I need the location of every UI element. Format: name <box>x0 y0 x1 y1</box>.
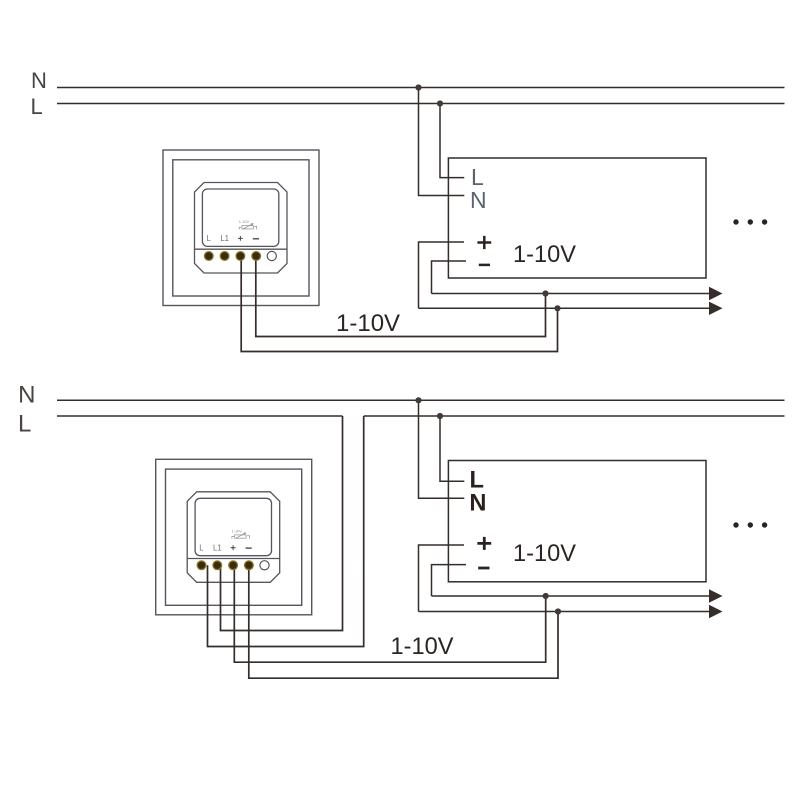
svg-text:N: N <box>470 187 487 213</box>
wire N mains (top) <box>57 87 785 89</box>
dimmer module device U1 (top) <box>195 183 288 274</box>
svg-text:1-10V: 1-10V <box>513 242 576 268</box>
junction dim bus 2 (bottom) <box>555 608 561 614</box>
dimmer module terminals U1 (top) <box>204 251 277 261</box>
wire module - to ballast line (top) <box>256 256 546 337</box>
wire L drop to driver (top) <box>440 104 464 178</box>
wire module L1 feed (bottom) <box>221 416 343 631</box>
svg-text:N: N <box>31 68 47 93</box>
junction dim bus 1 (top) <box>542 290 548 296</box>
pin - symbol (bottom driver) <box>478 567 489 570</box>
svg-text:1-10V: 1-10V <box>336 310 400 337</box>
pin - symbol (top driver) <box>479 264 490 267</box>
svg-text:L: L <box>18 411 31 438</box>
ellipsis more drivers (top) <box>733 219 738 224</box>
wire module L return (bottom) <box>208 416 364 647</box>
junction dim bus 1 (bottom) <box>543 593 549 599</box>
wire - out of driver (bottom) <box>432 565 467 596</box>
wire N mains (bottom) <box>57 399 785 401</box>
wire L drop to driver (bottom) <box>440 416 464 481</box>
pin + symbol (top driver) <box>477 236 491 249</box>
dimmer module U1 (top) <box>163 150 319 306</box>
wire + out of driver (top) <box>419 242 465 308</box>
dimmer module U2 (bottom) <box>156 459 312 615</box>
junction N (top) <box>415 84 421 90</box>
svg-text:L: L <box>470 467 484 493</box>
dimmer module device U2 (bottom) <box>187 492 280 583</box>
svg-text:1-10V: 1-10V <box>391 634 454 660</box>
wire module + to ballast line (top) <box>241 256 557 352</box>
junction L (top) <box>437 100 443 106</box>
svg-text:N: N <box>469 491 486 517</box>
wire L mains switched segment (bottom) <box>364 415 785 417</box>
svg-text:1-10V: 1-10V <box>513 541 576 567</box>
junction dim bus 2 (top) <box>554 305 560 311</box>
driver box (top) <box>448 158 706 278</box>
wire module - to dim bus (bottom) <box>249 565 558 678</box>
wire N drop to driver (top) <box>419 88 465 196</box>
wire dim bus 1 with arrow (bottom) <box>432 595 711 597</box>
wire L mains (top) <box>57 103 785 105</box>
dimmer module terminals U2 (bottom) <box>197 560 270 570</box>
wire dim bus 2 with arrow (top) <box>419 307 711 309</box>
junction N (bottom) <box>415 397 421 403</box>
svg-text:L: L <box>31 94 43 119</box>
wire dim bus 1 with arrow (top) <box>432 293 711 295</box>
pin + symbol (bottom driver) <box>477 537 491 550</box>
svg-text:N: N <box>18 382 35 409</box>
wire L mains incoming segment (bottom) <box>57 415 343 417</box>
wire + out of driver (bottom) <box>419 545 465 612</box>
driver box (bottom) <box>448 461 706 582</box>
ellipsis more drivers (bottom) <box>733 522 738 527</box>
wire N drop to driver (bottom) <box>419 400 465 498</box>
wire module + to dim bus (bottom) <box>234 565 545 662</box>
wire dim bus 2 with arrow (bottom) <box>419 611 711 613</box>
junction L (bottom) <box>437 413 443 419</box>
wire - out of driver (top) <box>432 261 467 294</box>
